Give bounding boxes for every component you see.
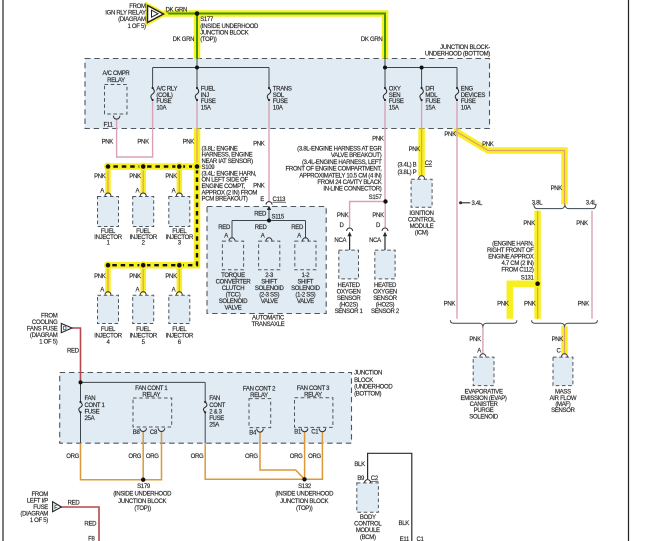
svg-text:3.8L: 3.8L [532,200,543,206]
svg-text:PNK: PNK [482,142,494,148]
svg-text:SEN: SEN [389,93,400,99]
svg-text:PNK: PNK [129,274,141,280]
svg-text:PNK: PNK [94,274,106,280]
svg-text:AIR FLOW: AIR FLOW [550,396,577,402]
svg-text:FUEL: FUEL [172,327,187,333]
svg-text:COOLING: COOLING [32,320,58,326]
svg-text:FUSE: FUSE [389,99,404,105]
svg-text:CONT 1: CONT 1 [85,403,106,409]
svg-text:S132: S132 [298,484,312,490]
svg-text:NCA: NCA [334,238,346,244]
svg-text:MASS: MASS [555,390,571,396]
svg-text:15A: 15A [201,105,211,111]
svg-text:AUTOMATIC: AUTOMATIC [252,316,285,322]
svg-text:(COIL): (COIL) [156,93,173,99]
svg-text:VALVE: VALVE [297,299,314,305]
svg-text:SENSOR 1: SENSOR 1 [335,309,364,315]
svg-text:PNK: PNK [94,174,106,180]
svg-text:A: A [172,189,176,195]
svg-text:(3.8L-ENGINE HARNESS AT EGR: (3.8L-ENGINE HARNESS AT EGR [297,147,382,153]
svg-text:ORG: ORG [290,454,303,460]
svg-text:PNK: PNK [372,137,384,143]
svg-text:(HO2S): (HO2S) [376,303,395,309]
svg-text:6: 6 [178,340,182,346]
svg-text:5: 5 [142,340,146,346]
svg-text:JUNCTION BLOCK: JUNCTION BLOCK [200,30,248,36]
svg-text:CONTROL: CONTROL [408,217,436,223]
svg-text:PNK: PNK [552,337,564,343]
svg-text:FAN: FAN [209,396,220,402]
svg-text:EVAPORATIVE: EVAPORATIVE [465,390,503,396]
svg-text:SOLENOID: SOLENOID [469,414,499,420]
svg-text:MODULE: MODULE [410,224,434,230]
svg-text:ORG: ORG [245,454,258,460]
svg-text:FRONT OF ENGINE COMPARTMENT,: FRONT OF ENGINE COMPARTMENT, [286,167,383,173]
svg-text:SHIFT: SHIFT [261,280,277,286]
svg-text:TRANSAXLE: TRANSAXLE [252,322,285,328]
svg-text:PNK: PNK [337,213,349,219]
svg-text:ON LEFT SIDE OF: ON LEFT SIDE OF [202,178,249,184]
svg-text:(HO2S): (HO2S) [339,303,358,309]
svg-text:HEATED: HEATED [374,283,397,289]
svg-text:PNK: PNK [497,302,509,308]
svg-text:DEVICES: DEVICES [461,93,486,99]
svg-text:10A: 10A [461,105,471,111]
svg-text:BLK: BLK [354,462,365,468]
svg-text:S115: S115 [272,215,285,221]
svg-text:PNK: PNK [551,186,563,192]
svg-text:TRANS: TRANS [273,87,292,93]
svg-text:ENGINE COMPT,: ENGINE COMPT, [202,184,246,190]
svg-text:3.4L: 3.4L [586,200,597,206]
svg-text:(INSIDE UNDERHOOD: (INSIDE UNDERHOOD [275,492,334,498]
svg-text:FROM 24 CAVITY BLACK: FROM 24 CAVITY BLACK [317,180,381,186]
svg-text:1-2: 1-2 [302,273,311,279]
svg-text:VALVE BREAKOUT): VALVE BREAKOUT) [331,153,382,159]
svg-text:FAN CONT 1: FAN CONT 1 [135,386,168,392]
svg-text:CONVERTER: CONVERTER [216,280,252,286]
svg-text:SENSOR: SENSOR [551,408,576,414]
svg-text:C8: C8 [150,430,158,436]
svg-text:LEFT I/P: LEFT I/P [27,499,48,505]
svg-text:PNK: PNK [444,302,456,308]
svg-text:SOL: SOL [273,93,285,99]
svg-text:10A: 10A [273,105,283,111]
svg-text:A: A [172,287,176,293]
svg-text:(DIAGRAM: (DIAGRAM [20,512,48,518]
svg-text:OXY: OXY [389,87,401,93]
svg-text:TORQUE: TORQUE [221,273,245,279]
svg-text:F8: F8 [88,537,95,541]
svg-text:A/C RLY: A/C RLY [156,87,177,93]
svg-text:B1: B1 [294,430,302,436]
svg-text:SOLENOID: SOLENOID [255,286,285,292]
svg-text:A: A [135,189,139,195]
svg-text:RED: RED [291,225,304,231]
svg-text:A: A [477,349,481,355]
svg-text:FUSE: FUSE [33,505,48,511]
svg-text:1 OF 5): 1 OF 5) [127,24,146,30]
svg-text:ORG: ORG [191,454,204,460]
svg-text:FANS FUSE: FANS FUSE [27,327,58,333]
svg-text:B8: B8 [133,430,141,436]
svg-text:E11: E11 [400,537,410,541]
svg-text:RED: RED [67,348,80,354]
svg-text:FUSE: FUSE [273,99,288,105]
svg-text:IGNITION: IGNITION [409,211,433,217]
svg-text:15A: 15A [425,105,435,111]
svg-text:RIGHT FRONT OF: RIGHT FRONT OF [487,248,534,254]
svg-text:S177: S177 [200,17,214,23]
svg-text:FROM: FROM [32,492,49,498]
svg-text:JUNCTION: JUNCTION [354,371,382,377]
svg-text:25A: 25A [209,423,219,429]
svg-text:PNK: PNK [469,337,481,343]
svg-text:FAN: FAN [85,396,96,402]
svg-text:RELAY: RELAY [142,393,160,399]
svg-text:RED: RED [68,501,81,507]
svg-text:2-3: 2-3 [265,273,274,279]
svg-text:(BOTTOM): (BOTTOM) [354,392,381,398]
svg-text:SENSOR 2: SENSOR 2 [371,309,400,315]
svg-text:PNK: PNK [129,174,141,180]
svg-text:S179: S179 [137,484,151,490]
svg-text:ORG: ORG [66,454,79,460]
svg-text:SHIFT: SHIFT [297,280,313,286]
svg-text:INJ: INJ [201,93,209,99]
svg-text:A: A [100,189,104,195]
svg-text:(1-2 SS): (1-2 SS) [295,293,315,299]
svg-text:PNK: PNK [137,140,149,146]
svg-text:(UNDERHOOD: (UNDERHOOD [354,385,393,391]
svg-text:OXYGEN: OXYGEN [337,290,361,296]
svg-text:DFI: DFI [425,87,434,93]
svg-text:C1: C1 [311,430,319,436]
svg-text:PNK: PNK [523,221,535,227]
svg-text:SOLENOID: SOLENOID [219,299,249,305]
svg-text:(3.8L) P: (3.8L) P [397,170,416,176]
svg-text:IGN RLY RELAY: IGN RLY RELAY [105,11,146,17]
svg-text:BODY: BODY [360,515,376,521]
svg-text:VALVE: VALVE [225,306,242,312]
svg-text:C: C [556,349,561,355]
svg-text:F: F [54,505,57,511]
svg-text:(3.4L-ENGINE HARNESS, LEFT: (3.4L-ENGINE HARNESS, LEFT [302,160,382,166]
svg-text:INJECTOR: INJECTOR [166,334,194,340]
svg-text:PURGE: PURGE [474,408,494,414]
svg-text:2 & 3: 2 & 3 [209,409,222,415]
svg-text:RELAY: RELAY [107,78,125,84]
svg-text:EMISSION (EVAP): EMISSION (EVAP) [461,396,507,402]
svg-text:HARNESS, ENGINE: HARNESS, ENGINE [202,153,253,159]
svg-text:S157: S157 [369,195,383,201]
svg-text:ENGINE APPROX: ENGINE APPROX [488,254,534,260]
svg-text:FUEL: FUEL [136,327,151,333]
svg-text:4.7 CM (2 IN): 4.7 CM (2 IN) [501,261,533,267]
svg-text:FUSE: FUSE [201,99,216,105]
svg-text:E: E [260,197,264,203]
svg-text:PNK: PNK [253,142,265,148]
svg-text:A/C CMPR: A/C CMPR [103,71,131,77]
svg-text:ORG: ORG [146,454,159,460]
svg-text:A: A [297,234,301,240]
svg-text:CLUTCH: CLUTCH [222,286,245,292]
svg-text:VALVE: VALVE [261,299,278,305]
svg-text:RED: RED [255,225,268,231]
svg-text:ENG: ENG [461,87,474,93]
svg-text:D: D [339,223,344,229]
svg-text:PNK: PNK [165,274,177,280]
svg-text:(TOP)): (TOP)) [296,506,313,512]
svg-text:INJECTOR: INJECTOR [129,334,157,340]
svg-text:FUEL: FUEL [101,327,116,333]
svg-text:PNK: PNK [102,140,114,146]
svg-text:3.4L: 3.4L [472,201,483,207]
svg-text:FUEL: FUEL [201,87,216,93]
svg-text:APPROXIMATELY 10.5 CM (4 IN): APPROXIMATELY 10.5 CM (4 IN) [299,173,382,179]
svg-text:A: A [261,234,265,240]
svg-text:3: 3 [178,241,182,247]
svg-text:10A: 10A [156,105,166,111]
svg-text:15A: 15A [389,105,399,111]
svg-text:PNK: PNK [578,302,590,308]
svg-text:B4: B4 [249,431,257,437]
svg-text:A: A [224,234,228,240]
svg-text:BLK: BLK [399,521,410,527]
svg-text:F11: F11 [104,123,114,129]
svg-text:1: 1 [106,241,110,247]
svg-text:DK GRN: DK GRN [166,8,188,14]
svg-text:PCM BREAKOUT): PCM BREAKOUT) [202,197,248,203]
svg-text:FUSE: FUSE [461,99,476,105]
svg-text:(3.4L) B: (3.4L) B [397,163,416,169]
svg-text:2: 2 [142,241,146,247]
svg-text:RED: RED [84,521,97,527]
svg-text:DK GRN: DK GRN [173,37,195,43]
svg-text:PNK: PNK [524,302,536,308]
svg-text:RED: RED [254,211,267,217]
svg-text:PNK: PNK [372,213,384,219]
svg-text:(INSIDE UNDERHOOD: (INSIDE UNDERHOOD [200,24,259,30]
svg-text:C1: C1 [417,537,425,541]
svg-text:INJECTOR: INJECTOR [94,334,122,340]
svg-text:JUNCTION BLOCK: JUNCTION BLOCK [118,499,166,505]
svg-text:ORG: ORG [308,454,321,460]
svg-text:FAN CONT 3: FAN CONT 3 [297,386,330,392]
svg-text:(TCC): (TCC) [226,293,241,299]
svg-text:IN-LINE CONNECTOR): IN-LINE CONNECTOR) [323,187,381,193]
svg-text:PNK: PNK [165,174,177,180]
svg-text:FUSE: FUSE [156,99,171,105]
svg-text:FROM C112): FROM C112) [501,267,534,273]
svg-text:PNK: PNK [253,184,265,190]
svg-text:PNK: PNK [409,147,421,153]
svg-text:FUSE: FUSE [425,99,440,105]
svg-text:(3.8L: ENGINE: (3.8L: ENGINE [202,146,238,152]
svg-text:(2-3 SS): (2-3 SS) [259,293,279,299]
svg-text:(DIAGRAM: (DIAGRAM [30,333,58,339]
svg-text:UNDERHOOD (BOTTOM): UNDERHOOD (BOTTOM) [425,51,490,57]
svg-text:NCA: NCA [369,238,381,244]
svg-text:JUNCTION BLOCK: JUNCTION BLOCK [280,499,328,505]
svg-text:(TOP)): (TOP)) [134,506,151,512]
svg-text:ORG: ORG [128,454,141,460]
svg-text:(ICM): (ICM) [415,230,429,236]
svg-text:4: 4 [106,340,110,346]
svg-text:PNK: PNK [183,140,195,146]
svg-text:FUSE: FUSE [85,409,100,415]
svg-text:S109: S109 [202,165,216,171]
svg-text:1 OF 5): 1 OF 5) [30,518,49,524]
svg-text:MDL: MDL [425,93,438,99]
svg-text:1 OF 5): 1 OF 5) [39,340,58,346]
svg-text:APPROX (2 IN) FROM: APPROX (2 IN) FROM [202,190,258,196]
svg-text:(ENGINE HARN,: (ENGINE HARN, [492,241,534,247]
svg-text:RELAY: RELAY [250,393,268,399]
svg-text:CONT: CONT [209,403,225,409]
svg-text:MODULE: MODULE [356,528,380,534]
svg-text:FROM: FROM [41,314,58,320]
svg-text:A: A [100,287,104,293]
svg-text:FAN CONT 2: FAN CONT 2 [243,387,276,393]
svg-text:HEATED: HEATED [338,283,361,289]
svg-text:FUSE: FUSE [209,416,224,422]
svg-text:JUNCTION BLOCK-: JUNCTION BLOCK- [440,45,490,51]
svg-text:FROM: FROM [129,4,146,10]
svg-text:CANISTER: CANISTER [470,402,499,408]
svg-text:25A: 25A [85,416,95,422]
svg-text:(BCM): (BCM) [360,535,376,541]
svg-text:CONTROL: CONTROL [354,522,382,528]
svg-text:(DIAGRAM: (DIAGRAM [118,17,146,23]
svg-text:BLOCK: BLOCK [354,378,373,384]
svg-text:PNK: PNK [444,132,456,138]
svg-text:SOLENOID: SOLENOID [291,286,321,292]
svg-text:(MAF): (MAF) [555,402,570,408]
svg-text:RED: RED [218,225,231,231]
svg-text:SENSOR: SENSOR [373,296,398,302]
svg-text:S131: S131 [521,275,535,281]
svg-text:B9: B9 [357,476,365,482]
svg-text:(TOP)): (TOP)) [200,37,217,43]
svg-text:PNK: PNK [576,221,588,227]
svg-text:SENSOR: SENSOR [337,296,362,302]
svg-text:OXYGEN: OXYGEN [373,290,397,296]
svg-text:A: A [135,287,139,293]
svg-text:(INSIDE UNDERHOOD: (INSIDE UNDERHOOD [113,492,172,498]
svg-text:D: D [376,223,381,229]
svg-text:RELAY: RELAY [304,392,322,398]
svg-text:DK GRN: DK GRN [361,37,383,43]
